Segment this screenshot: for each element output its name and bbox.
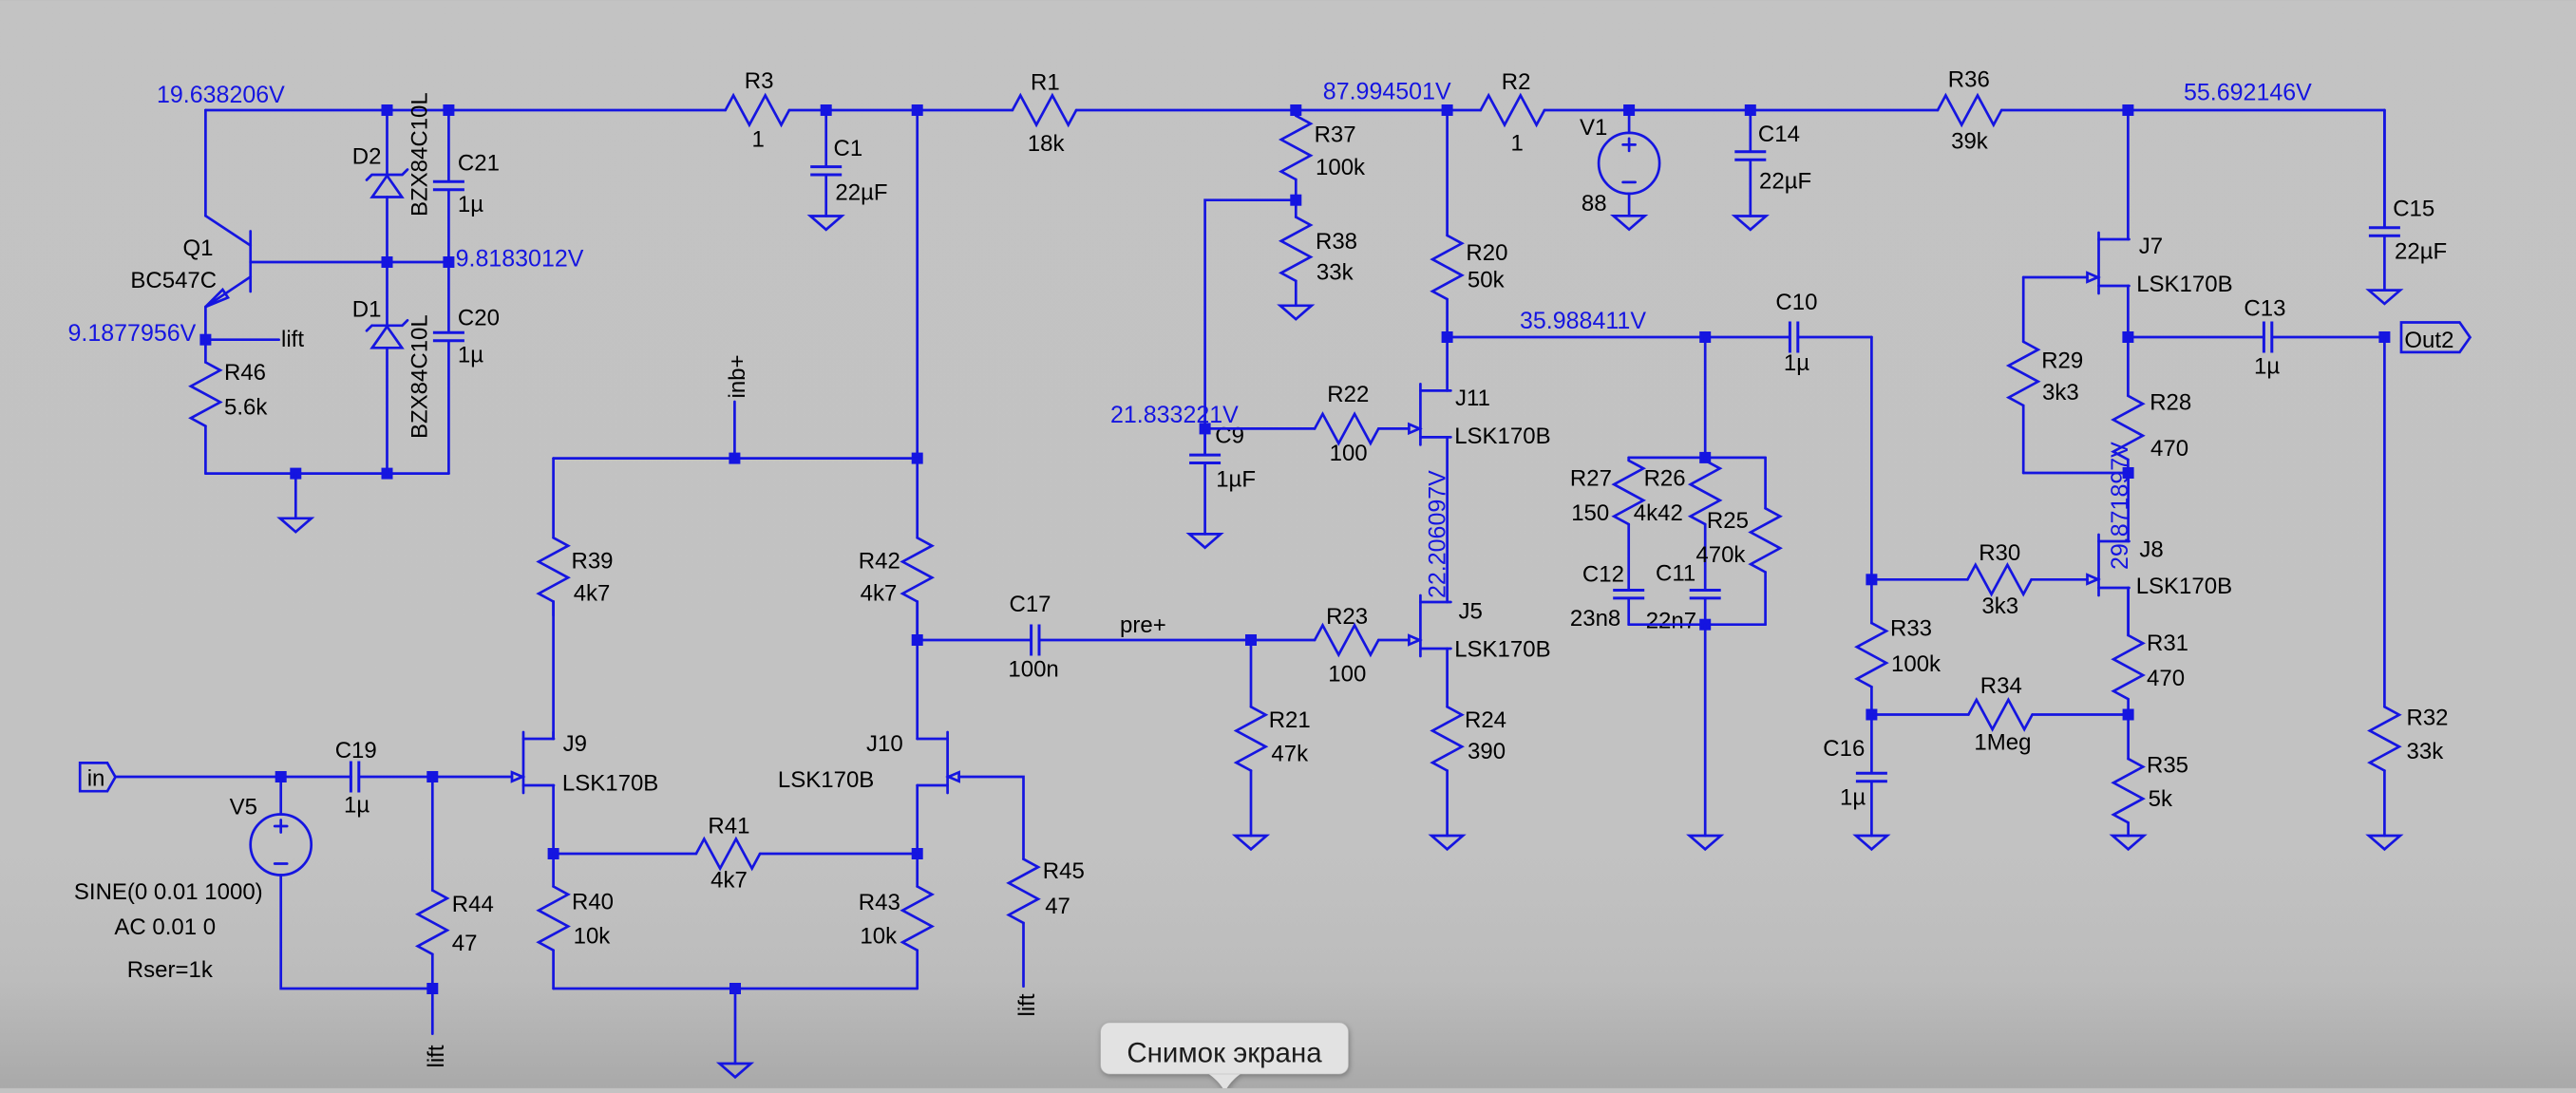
svg-text:390: 390 xyxy=(1468,739,1506,764)
svg-text:Снимок экрана: Снимок экрана xyxy=(1127,1038,1322,1069)
svg-text:LSK170B: LSK170B xyxy=(778,767,874,793)
wire V1 bottom stub xyxy=(1628,194,1631,216)
svg-text:22µF: 22µF xyxy=(2395,239,2447,265)
svg-text:C14: C14 xyxy=(1758,122,1800,147)
svg-text:J9: J9 xyxy=(563,731,587,757)
svg-text:3k3: 3k3 xyxy=(1981,594,2018,619)
capacitor C12 xyxy=(1570,524,1644,631)
svg-text:22µF: 22µF xyxy=(1759,169,1811,195)
junction R37 / R38 / C9 wire xyxy=(1290,195,1301,206)
ground (R24) xyxy=(1431,836,1463,849)
wire Q1 collector xyxy=(204,110,207,216)
svg-text:C10: C10 xyxy=(1775,290,1817,315)
svg-text:47: 47 xyxy=(1045,894,1070,919)
svg-text:33k: 33k xyxy=(2407,739,2445,764)
wire R45 to lift xyxy=(1022,923,1025,987)
resistor R32 xyxy=(2370,705,2449,770)
capacitor C11 xyxy=(1646,524,1721,634)
svg-text:R27: R27 xyxy=(1570,465,1612,491)
ground (R35) xyxy=(2112,836,2144,849)
svg-text:100n: 100n xyxy=(1008,657,1058,683)
resistor R24 xyxy=(1432,649,1506,771)
svg-text:R46: R46 xyxy=(224,360,266,386)
svg-text:V1: V1 xyxy=(1580,115,1607,141)
svg-text:5k: 5k xyxy=(2149,786,2173,812)
wire J7 source down xyxy=(2127,286,2130,337)
wire Q1 emitter xyxy=(204,307,207,340)
resistor R22 xyxy=(1205,382,1410,466)
wire C10 to R33 junction xyxy=(1870,337,1873,579)
svg-text:9.1877956V: 9.1877956V xyxy=(68,320,197,347)
wire J10 source down xyxy=(916,785,919,854)
junction base node / C20 xyxy=(443,256,454,268)
svg-text:Rser=1k: Rser=1k xyxy=(127,957,214,983)
svg-text:C19: C19 xyxy=(335,738,377,763)
svg-text:C13: C13 xyxy=(2244,295,2285,321)
junction bottom rail / D1 xyxy=(382,468,393,480)
resistor R46 xyxy=(191,340,268,474)
junction R42 / C17 tap xyxy=(912,634,923,646)
junction in wire / V5 xyxy=(275,771,287,782)
junction long column / inb+ wire xyxy=(912,453,923,464)
resistor R44 xyxy=(418,777,494,989)
wire top rail segment 4 xyxy=(1544,109,1938,112)
svg-text:3k3: 3k3 xyxy=(2042,380,2079,405)
svg-text:R45: R45 xyxy=(1043,858,1085,884)
svg-text:R38: R38 xyxy=(1316,229,1357,254)
resistor R36 xyxy=(1938,67,2001,155)
svg-text:19.638206V: 19.638206V xyxy=(157,82,285,108)
wire top rail segment 1 xyxy=(205,109,725,112)
svg-text:R34: R34 xyxy=(1980,673,2022,699)
svg-text:9.8183012V: 9.8183012V xyxy=(456,246,584,273)
svg-text:22n7: 22n7 xyxy=(1646,609,1696,634)
transistor J5 (n-JFET) xyxy=(1409,595,1550,663)
wire J11 drain up xyxy=(1446,337,1449,390)
svg-text:R42: R42 xyxy=(859,549,900,575)
svg-text:R43: R43 xyxy=(859,890,900,915)
svg-text:18k: 18k xyxy=(1028,131,1066,157)
capacitor C19 xyxy=(335,738,433,819)
svg-text:470: 470 xyxy=(2150,436,2188,462)
svg-text:47k: 47k xyxy=(1271,742,1309,767)
svg-text:J8: J8 xyxy=(2139,537,2163,562)
capacitor C9 xyxy=(1189,424,1256,535)
svg-text:39k: 39k xyxy=(1951,128,1989,154)
svg-text:J7: J7 xyxy=(2139,234,2163,259)
svg-text:55.692146V: 55.692146V xyxy=(2184,80,2312,106)
node voltage label 29.871897V (rotated) xyxy=(2107,442,2133,570)
transistor Q1 (npn BC547C) xyxy=(130,216,250,307)
junction J7 source / C13 / R28 xyxy=(2122,331,2133,343)
svg-text:100: 100 xyxy=(1330,441,1368,466)
resistor R39 xyxy=(539,459,613,615)
svg-text:R23: R23 xyxy=(1326,604,1368,630)
junction 35.98 node / RC column xyxy=(1699,331,1711,343)
zener diode D1 xyxy=(352,296,407,348)
transistor J8 (n-JFET) xyxy=(2088,535,2233,599)
svg-text:4k42: 4k42 xyxy=(1634,500,1683,526)
svg-text:lift: lift xyxy=(1014,993,1040,1016)
wire J8 drain column xyxy=(2127,473,2130,541)
zener diode D2 xyxy=(352,144,407,198)
svg-text:5.6k: 5.6k xyxy=(224,395,268,421)
svg-text:R26: R26 xyxy=(1644,465,1686,491)
wire C19 node to J9 gate xyxy=(432,776,512,779)
junction C9 node / R22 xyxy=(1200,423,1211,434)
svg-text:C21: C21 xyxy=(458,150,500,176)
svg-text:47: 47 xyxy=(452,931,478,956)
wire inb+ stub xyxy=(733,402,736,459)
svg-text:87.994501V: 87.994501V xyxy=(1323,79,1451,105)
svg-text:R3: R3 xyxy=(745,68,774,94)
wire emitter to lift label xyxy=(205,338,278,341)
junction rail / C1 xyxy=(821,104,832,116)
svg-text:R25: R25 xyxy=(1707,508,1749,534)
svg-text:C16: C16 xyxy=(1823,736,1865,762)
svg-text:R2: R2 xyxy=(1502,69,1531,95)
resistor R38 xyxy=(1281,200,1357,306)
wire J10 gate to R45 xyxy=(959,777,1024,859)
svg-text:R35: R35 xyxy=(2147,753,2188,779)
wire J9 source down xyxy=(552,785,555,854)
voltage source V1 xyxy=(1580,115,1659,217)
wire J9 drain lead up xyxy=(552,732,555,739)
svg-text:22µF: 22µF xyxy=(835,180,887,206)
svg-text:4k7: 4k7 xyxy=(861,580,898,606)
svg-text:LSK170B: LSK170B xyxy=(562,771,658,797)
svg-text:1µF: 1µF xyxy=(1216,466,1256,492)
wire V1 top stub xyxy=(1628,110,1631,133)
wire in to C19 xyxy=(116,776,351,779)
svg-text:33k: 33k xyxy=(1316,259,1354,285)
net label inb+ xyxy=(725,354,750,398)
svg-text:BZX84C10L: BZX84C10L xyxy=(407,314,433,439)
wire Q1 base to zener node xyxy=(251,261,449,264)
svg-text:1: 1 xyxy=(752,127,765,153)
resistor R33 xyxy=(1857,579,1941,714)
svg-text:J11: J11 xyxy=(1455,386,1490,411)
wire Out2 node down to R32 xyxy=(2383,337,2386,707)
wire RC bottom node xyxy=(1629,623,1766,626)
resistor R3 xyxy=(726,68,789,153)
net port Out2 xyxy=(2401,323,2471,354)
junction rail / C14 xyxy=(1745,104,1756,116)
svg-text:88: 88 xyxy=(1582,191,1607,217)
svg-text:R41: R41 xyxy=(708,814,749,839)
capacitor C13 xyxy=(2128,295,2384,379)
wire rail right corner down to C15 xyxy=(2383,110,2386,226)
svg-text:R21: R21 xyxy=(1269,707,1311,733)
svg-text:C15: C15 xyxy=(2393,196,2434,221)
svg-text:BC547C: BC547C xyxy=(130,268,217,293)
wire regulator bottom rail xyxy=(205,472,448,475)
transistor J11 (n-JFET) xyxy=(1409,384,1550,449)
junction rail / R20 xyxy=(1442,104,1453,116)
wire V5 bottom xyxy=(281,876,433,989)
svg-text:R28: R28 xyxy=(2150,390,2191,416)
value label BZX84C10L (D1) xyxy=(407,314,433,439)
resistor R40 xyxy=(539,854,614,989)
svg-text:R31: R31 xyxy=(2147,631,2188,656)
svg-text:R30: R30 xyxy=(1979,540,2020,566)
capacitor C10 xyxy=(1775,290,1871,376)
ground (R21) xyxy=(1236,836,1267,849)
capacitor C15 xyxy=(2369,110,2447,291)
svg-text:R22: R22 xyxy=(1327,382,1369,407)
svg-text:BZX84C10L: BZX84C10L xyxy=(407,92,433,217)
wire R39 bottom to J9 drain xyxy=(552,602,555,740)
wire D1 cathode xyxy=(386,262,388,326)
svg-text:1µ: 1µ xyxy=(344,793,369,819)
svg-text:lift: lift xyxy=(424,1045,449,1067)
net label lift (R45) xyxy=(1014,993,1040,1016)
resistor R23 xyxy=(1251,604,1409,687)
svg-text:50k: 50k xyxy=(1468,267,1506,292)
svg-text:470k: 470k xyxy=(1695,542,1746,568)
capacitor C16 xyxy=(1823,715,1887,837)
wire RC top node xyxy=(1629,457,1766,460)
ground (R38) xyxy=(1280,306,1312,319)
svg-text:470: 470 xyxy=(2147,666,2185,691)
svg-text:inb+: inb+ xyxy=(725,354,750,398)
svg-text:R24: R24 xyxy=(1465,707,1506,733)
resistor R27 xyxy=(1570,458,1643,526)
svg-text:10k: 10k xyxy=(574,923,612,949)
value label BZX84C10L (D2) xyxy=(407,92,433,217)
svg-text:LSK170B: LSK170B xyxy=(1454,424,1550,449)
junction R30 / R33 / C10 xyxy=(1866,574,1877,585)
wire D1 anode to bottom rail xyxy=(386,348,388,473)
wire R29 bottom to J8 node xyxy=(2023,472,2128,475)
junction base node / D1 D2 xyxy=(382,256,393,268)
wire top rail segment 2 xyxy=(789,109,1013,112)
svg-text:4k7: 4k7 xyxy=(710,867,748,893)
svg-text:R33: R33 xyxy=(1890,616,1932,642)
svg-text:J10: J10 xyxy=(866,731,903,757)
svg-text:100k: 100k xyxy=(1891,651,1941,677)
svg-text:C12: C12 xyxy=(1582,562,1624,588)
wire J7 drain column xyxy=(2127,110,2130,239)
wire J8 source down xyxy=(2127,588,2130,635)
wire top rail segment 3 xyxy=(1076,109,1481,112)
transistor J7 (n-JFET) xyxy=(2088,233,2233,297)
resistor R1 xyxy=(1013,70,1076,157)
svg-text:10k: 10k xyxy=(860,923,898,949)
capacitor C17 xyxy=(918,592,1251,682)
svg-text:SINE(0 0.01 1000): SINE(0 0.01 1000) xyxy=(74,879,263,905)
wire R32 to ground xyxy=(2383,771,2386,837)
svg-text:V5: V5 xyxy=(230,795,257,820)
junction R44 bottom / V5 return xyxy=(426,983,438,994)
junction rail / C21 xyxy=(443,104,454,116)
svg-text:1: 1 xyxy=(1511,130,1524,156)
svg-text:R20: R20 xyxy=(1466,240,1507,266)
junction rail / R37 xyxy=(1290,104,1301,116)
junction rail / long column xyxy=(912,104,923,116)
net label lift (R44) xyxy=(424,1045,449,1067)
resistor R45 xyxy=(1009,858,1085,923)
svg-text:Out2: Out2 xyxy=(2404,328,2453,353)
wire R21 to ground xyxy=(1250,771,1253,837)
resistor R28 xyxy=(2113,337,2191,473)
svg-text:1µ: 1µ xyxy=(458,343,483,368)
ground (regulator) xyxy=(280,474,312,532)
wire J7 gate to R29 xyxy=(2023,276,2087,279)
junction bottom rail / ground stub xyxy=(290,468,301,480)
junction RC top node xyxy=(1699,452,1711,463)
wire R42 bottom to J10 drain xyxy=(916,602,919,740)
wire RC bottom to ground xyxy=(1704,625,1707,836)
svg-text:C11: C11 xyxy=(1656,561,1695,587)
svg-text:D1: D1 xyxy=(352,296,382,322)
junction inb+ stub xyxy=(729,453,740,464)
junction rail / J7 drain xyxy=(2122,104,2133,116)
resistor R37 xyxy=(1281,110,1366,200)
wire 35.98 node horizontal xyxy=(1448,336,1790,339)
svg-text:R32: R32 xyxy=(2407,705,2449,730)
svg-text:100k: 100k xyxy=(1316,155,1366,180)
ground (RC network) xyxy=(1690,836,1721,849)
ground (R32) xyxy=(2369,836,2400,849)
wire R44 bottom to lift xyxy=(431,989,434,1034)
voltage source V5 xyxy=(230,795,312,876)
resistor R2 xyxy=(1481,69,1544,156)
svg-text:C1: C1 xyxy=(834,136,863,161)
svg-text:R29: R29 xyxy=(2041,348,2083,373)
resistor R43 xyxy=(859,854,932,989)
svg-text:lift: lift xyxy=(281,327,304,352)
svg-text:1µ: 1µ xyxy=(1784,350,1809,376)
svg-text:R44: R44 xyxy=(452,892,494,917)
resistor R21 xyxy=(1237,640,1311,771)
junction J10 source / R41 / R43 xyxy=(912,848,923,859)
svg-text:1µ: 1µ xyxy=(1840,784,1866,810)
svg-text:1µ: 1µ xyxy=(458,192,483,217)
svg-text:R36: R36 xyxy=(1948,67,1990,93)
svg-text:150: 150 xyxy=(1571,500,1609,526)
wire J11 source to J5 drain xyxy=(1446,437,1449,602)
svg-text:1Meg: 1Meg xyxy=(1974,730,2031,756)
junction RC bottom node xyxy=(1699,619,1711,631)
junction J9 source / R41 / R40 xyxy=(548,848,559,859)
junction rail / V1 xyxy=(1623,104,1635,116)
svg-text:LSK170B: LSK170B xyxy=(1454,637,1550,663)
svg-text:R37: R37 xyxy=(1315,122,1356,148)
svg-text:D2: D2 xyxy=(352,144,382,170)
svg-text:C17: C17 xyxy=(1010,592,1051,617)
resistor R42 xyxy=(859,537,932,640)
svg-text:Q1: Q1 xyxy=(183,236,214,261)
svg-text:35.988411V: 35.988411V xyxy=(1520,308,1646,334)
svg-text:LSK170B: LSK170B xyxy=(2136,574,2232,599)
wire long column to R42 xyxy=(916,110,919,537)
svg-text:R39: R39 xyxy=(572,549,614,575)
wire D2 cathode xyxy=(386,110,388,175)
transistor J9 (n-JFET) xyxy=(512,731,658,797)
ground (C15) xyxy=(2369,291,2400,304)
wire D2 anode to base node xyxy=(386,198,388,263)
svg-text:R1: R1 xyxy=(1031,70,1060,96)
svg-text:4k7: 4k7 xyxy=(574,580,611,606)
wire RC column vertical xyxy=(1704,337,1707,458)
junction pre+ / R21 xyxy=(1245,634,1257,646)
net port in xyxy=(80,763,115,791)
capacitor C20 xyxy=(433,262,500,474)
node 9.1877956V junction xyxy=(199,334,211,346)
wire diff pair bottom rail xyxy=(554,988,918,990)
capacitor C21 xyxy=(433,110,500,262)
junction bottom rail / ground stub xyxy=(729,983,741,994)
wire V5 top stub xyxy=(279,777,282,815)
svg-text:22.206097V: 22.206097V xyxy=(1425,470,1451,598)
ground (C9) xyxy=(1189,534,1221,547)
transistor J10 (n-JFET) xyxy=(778,731,959,793)
wire inb+ horizontal xyxy=(554,457,918,460)
svg-text:21.833221V: 21.833221V xyxy=(1110,402,1239,428)
wire R37-R38 node to C9 column xyxy=(1205,200,1297,454)
junction C19 / R44 top xyxy=(426,771,438,782)
capacitor C1 xyxy=(810,110,887,217)
svg-text:in: in xyxy=(87,766,105,792)
junction R28 / R29 / J8 drain xyxy=(2123,467,2134,479)
resistor R25 xyxy=(1695,458,1780,625)
svg-text:1µ: 1µ xyxy=(2254,354,2280,380)
resistor R41 xyxy=(554,814,918,894)
junction 35.98 node / J11 drain xyxy=(1442,331,1453,343)
svg-text:pre+: pre+ xyxy=(1120,612,1166,638)
svg-text:AC 0.01 0: AC 0.01 0 xyxy=(114,914,216,940)
resistor R20 xyxy=(1432,110,1507,337)
ground (V1) xyxy=(1614,216,1645,229)
resistor R30 xyxy=(1871,540,2087,619)
junction R33 / R34 / C16 xyxy=(1866,709,1877,721)
wire top rail segment 5 xyxy=(2001,109,2384,112)
svg-text:R40: R40 xyxy=(572,890,614,915)
ground (diff pair) xyxy=(720,989,751,1077)
svg-text:LSK170B: LSK170B xyxy=(2136,272,2232,297)
resistor R29 xyxy=(2009,277,2084,473)
resistor R35 xyxy=(2113,715,2188,837)
junction rail / D2 xyxy=(382,104,393,116)
junction Out2 node xyxy=(2378,331,2390,343)
svg-text:J5: J5 xyxy=(1459,599,1483,625)
resistor R26 xyxy=(1634,458,1720,526)
capacitor C14 xyxy=(1734,110,1811,217)
wire R24 to ground xyxy=(1446,771,1449,837)
svg-text:C20: C20 xyxy=(458,306,500,331)
junction R31 / R34 / R35 xyxy=(2123,709,2134,721)
ground (C16) xyxy=(1856,836,1887,849)
ground (C1) xyxy=(810,217,842,230)
ground (C14) xyxy=(1734,217,1766,230)
node voltage label 22.206097V (rotated) xyxy=(1425,470,1451,598)
tooltip "Снимок экрана" xyxy=(1101,1023,1349,1088)
resistor R31 xyxy=(2113,588,2188,715)
resistor R34 xyxy=(1871,673,2128,756)
svg-text:100: 100 xyxy=(1328,662,1366,688)
svg-text:23n8: 23n8 xyxy=(1570,606,1620,631)
